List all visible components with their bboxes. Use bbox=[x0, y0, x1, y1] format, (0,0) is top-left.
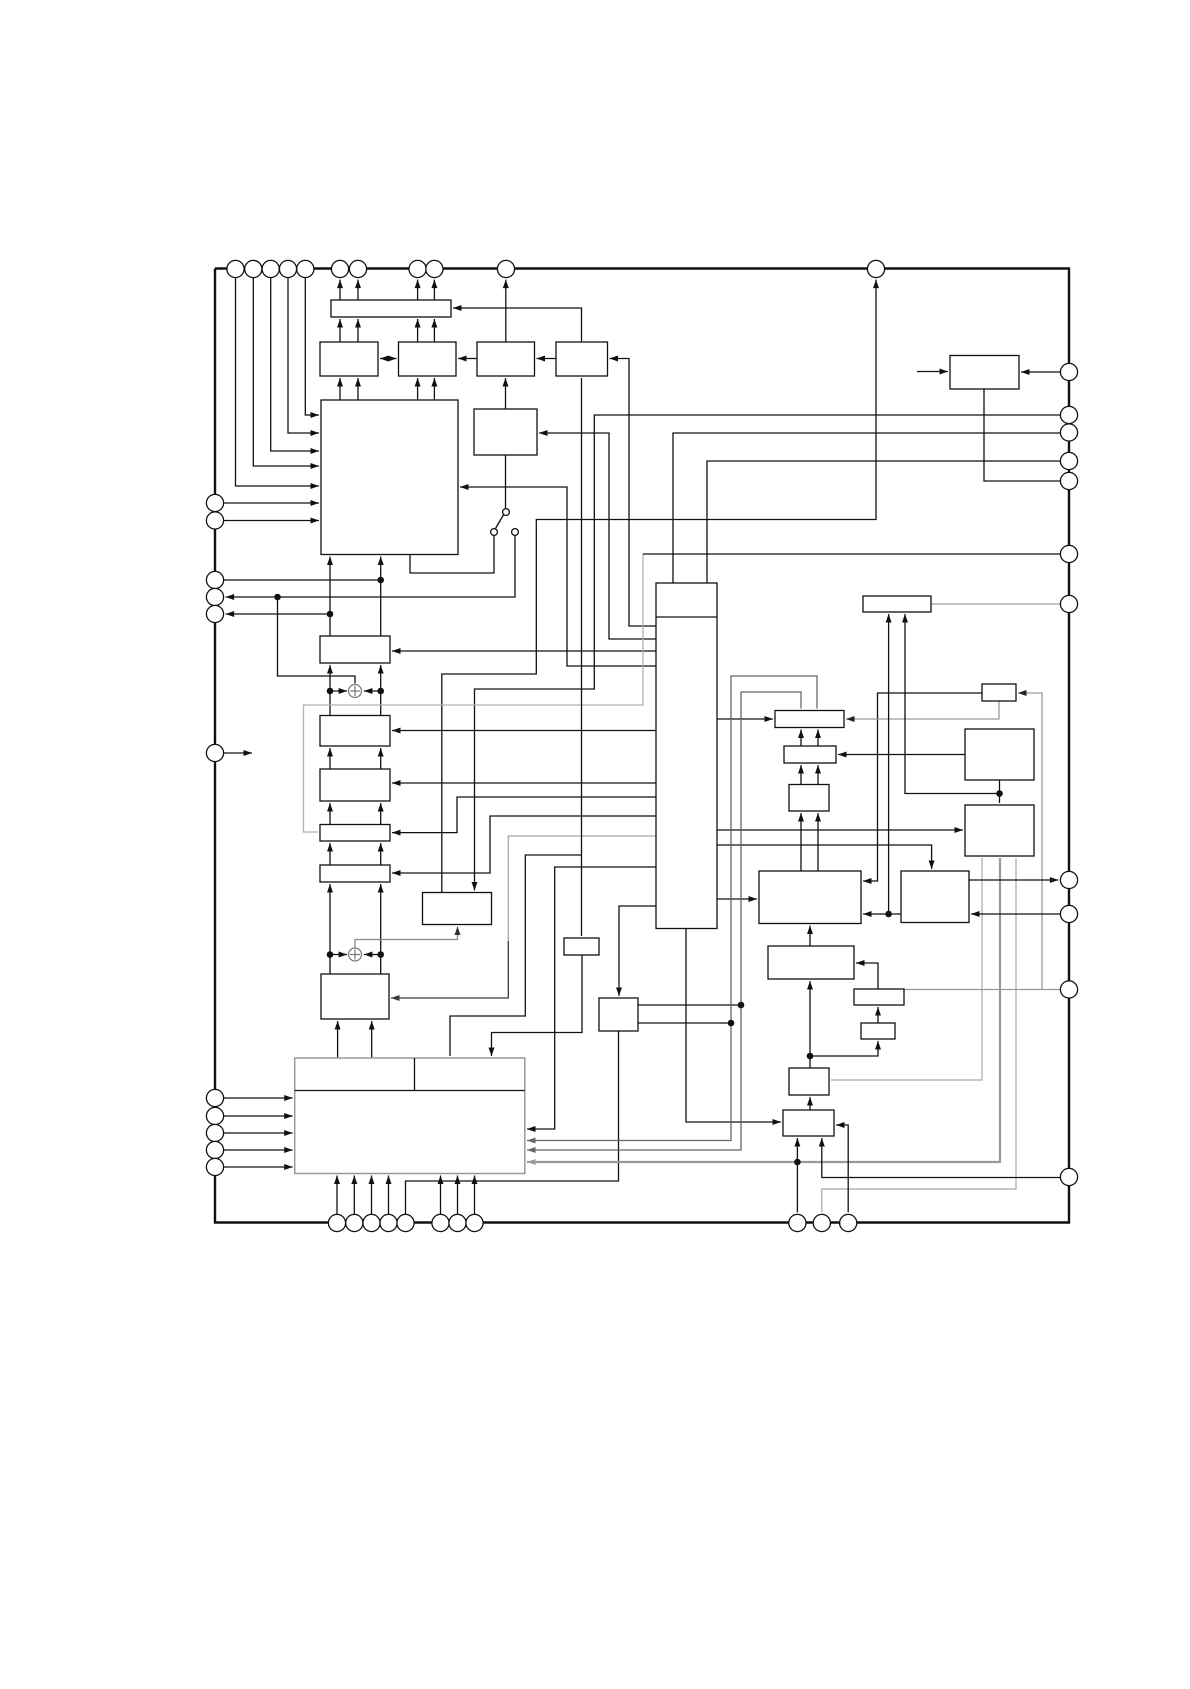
wire U1 to U3 b bbox=[357, 378, 359, 400]
wire pin R11 to H3 bbox=[822, 1138, 1061, 1178]
block U6 bbox=[556, 342, 608, 376]
wire T1 to E7 lower bbox=[391, 941, 508, 998]
wire IF header bottom bbox=[295, 1090, 525, 1092]
wire D1 to IF header bbox=[492, 955, 583, 1056]
block X2 bbox=[982, 684, 1016, 701]
wire IF header divider bbox=[414, 1058, 416, 1091]
wire tap to X1 b bbox=[905, 614, 1000, 794]
pin right 11 bbox=[1060, 1168, 1077, 1185]
wire E4 to E3 a bbox=[329, 803, 331, 825]
wire T1 to U6 bbox=[610, 359, 657, 627]
wire E2 to E1 a bbox=[329, 665, 331, 716]
junction dot A1 right bbox=[377, 688, 384, 695]
wire T1 to U1 right bbox=[460, 487, 656, 666]
pin left 2 bbox=[206, 512, 223, 529]
pin bottom 1 bbox=[328, 1214, 345, 1231]
wire U1 to U3 a bbox=[339, 378, 341, 400]
wire adder A2 in right bbox=[364, 954, 381, 956]
wire gray riser B bbox=[527, 692, 801, 1150]
wire gray riser B arrow bbox=[527, 1147, 536, 1153]
junction dot A1 left bbox=[327, 688, 334, 695]
wire U6 to U2 right bbox=[453, 308, 582, 342]
wire adder A1 in left bbox=[330, 690, 347, 692]
wire T1 divider bbox=[656, 616, 717, 618]
wire X2 to G4 bbox=[863, 693, 982, 881]
wire U3 out2 to U2 bbox=[357, 319, 359, 342]
wire W1 to G4 bbox=[809, 926, 811, 947]
pin bottom 11 bbox=[840, 1214, 857, 1231]
wire E5 to E4 a bbox=[329, 843, 331, 865]
wire U5 to pin bbox=[505, 280, 507, 342]
junction dot gray C tap bbox=[794, 1159, 801, 1166]
block M2 bbox=[599, 998, 638, 1031]
pin bottom 4 bbox=[380, 1214, 397, 1231]
block E3 bbox=[320, 769, 390, 801]
wire switch left to U1 bbox=[410, 535, 494, 573]
block X4 bbox=[965, 805, 1034, 856]
wire gray bus bbox=[304, 554, 644, 832]
wire F1 out to top pin bbox=[442, 280, 876, 893]
wire gray to H2 bbox=[831, 858, 982, 1080]
pin bottom 6 bbox=[432, 1214, 449, 1231]
junction dot A2 left bbox=[327, 951, 334, 958]
block H2 bbox=[789, 1068, 829, 1095]
wire pin1 to U1 in1 bbox=[236, 278, 320, 486]
wire U5 to U4 bbox=[458, 358, 477, 360]
wire E5 to E4 b bbox=[380, 843, 382, 865]
wire U2 out1 to pin bbox=[339, 280, 341, 300]
pin left 3 bbox=[206, 571, 223, 588]
wire T1 to U7 right bbox=[539, 433, 656, 639]
pin right 3 bbox=[1060, 424, 1077, 441]
wire T1 to E4 bbox=[392, 797, 656, 833]
pin left 8 bbox=[206, 1107, 223, 1124]
wire pin L9 to IF bbox=[224, 1132, 293, 1134]
wire U2 out2 to pin bbox=[357, 280, 359, 300]
wire T1 to E1 bbox=[392, 650, 656, 652]
adder A1 bbox=[349, 685, 362, 698]
pin right 5 bbox=[1060, 472, 1077, 489]
wire tap to S3 bbox=[810, 1041, 878, 1056]
wire G4 to G3 a bbox=[800, 813, 802, 871]
wire fb T right bbox=[1042, 989, 1060, 991]
wire pin2 to U1 in2 bbox=[253, 278, 319, 466]
wire T1 to G4 bbox=[717, 898, 757, 900]
pin right 2 bbox=[1060, 406, 1077, 423]
wire pin R1 to F1 top bbox=[475, 415, 1061, 891]
wire S2 to W1 bbox=[856, 963, 878, 989]
wire gray bus C arrow bbox=[527, 1159, 536, 1165]
wire tap to pin L5 bbox=[226, 613, 330, 615]
block S3 bbox=[861, 1023, 895, 1039]
wire pin B6 to IF bbox=[457, 1176, 459, 1215]
wire U7 to switch bbox=[505, 455, 507, 509]
block Z1 bbox=[901, 871, 969, 923]
wire IF to E6 a bbox=[337, 1021, 339, 1058]
block G3 bbox=[789, 785, 829, 812]
junction dot W1 tap bbox=[807, 1053, 814, 1060]
block E1 bbox=[320, 636, 390, 663]
wire pin L10 to IF bbox=[224, 1149, 293, 1151]
junction dot pin L3 bbox=[377, 577, 384, 584]
pin bottom 10 bbox=[813, 1214, 830, 1231]
pin top 9 bbox=[426, 260, 443, 277]
wire G2 to G1 a bbox=[800, 730, 802, 747]
wire pin B7 to IF bbox=[474, 1176, 476, 1215]
wire fb to X2 bbox=[1018, 693, 1042, 990]
block U7 bbox=[474, 409, 537, 455]
pin top 6 bbox=[331, 260, 348, 277]
wire Z1 to pin R8 bbox=[969, 879, 1058, 881]
junction dot feedback bbox=[274, 594, 281, 601]
block E2 bbox=[320, 716, 390, 747]
wire U8 to pin R5 bbox=[984, 389, 1060, 481]
pin left 7 bbox=[206, 1089, 223, 1106]
wire X3 to X4 bbox=[999, 780, 1001, 803]
wire pin L11 to IF bbox=[224, 1166, 293, 1168]
wire gray riser A arrow bbox=[527, 1138, 536, 1144]
wire T1 to E5 bbox=[392, 816, 656, 873]
wire E1 up to U1 b bbox=[380, 557, 382, 637]
block G2 bbox=[784, 746, 836, 763]
wire feedback to adder A1 bbox=[278, 597, 356, 684]
wire IF to E6 b bbox=[371, 1021, 373, 1058]
block G1 bbox=[775, 711, 844, 728]
block U2 register bbox=[331, 300, 451, 317]
wire pin B1 to IF bbox=[336, 1176, 338, 1215]
wire U6 to U5 bbox=[537, 358, 557, 360]
wire S3 to S2 bbox=[877, 1007, 879, 1023]
junction dot Z1 tap bbox=[885, 911, 892, 918]
wire Z1 to G4 bbox=[863, 913, 901, 915]
wire E1 up to U1 a bbox=[329, 557, 331, 637]
block U5 bbox=[477, 342, 535, 376]
wire gray D bbox=[822, 858, 1016, 1212]
wire stub to U8 bbox=[917, 371, 948, 373]
wire U4 out2 to U2 bbox=[433, 319, 435, 342]
block U8 top right bbox=[950, 356, 1019, 390]
junction dot pin L5 bbox=[327, 611, 334, 618]
wire outer border bbox=[215, 269, 1069, 1223]
wire switch right to pin L4 bbox=[226, 535, 515, 597]
wire U1 to U4 b bbox=[433, 378, 435, 400]
pin bottom 5 bbox=[397, 1214, 414, 1231]
pin right 8 bbox=[1060, 871, 1077, 888]
block X1 bbox=[863, 596, 931, 612]
wire M2 out b bbox=[638, 1022, 731, 1024]
wire pin R0 to U8 bbox=[1021, 371, 1060, 373]
wire pin B4 to IF bbox=[388, 1176, 390, 1215]
adder A2 bbox=[349, 948, 362, 961]
wire pin B5 to IF bbox=[440, 1176, 442, 1215]
wire H3 to H2 bbox=[809, 1097, 811, 1110]
junction dot M2 out a bbox=[738, 1002, 745, 1009]
pin left 11 bbox=[206, 1158, 223, 1175]
wire fb T left bbox=[904, 989, 1042, 991]
pin top 5 bbox=[297, 260, 314, 277]
wire pin B9 to H3 bbox=[796, 1138, 798, 1212]
block H3 bbox=[783, 1110, 834, 1136]
wire pin5 to U1 in5 bbox=[305, 278, 319, 415]
pin left 5 bbox=[206, 605, 223, 622]
wire E3 to E2 b bbox=[380, 748, 382, 769]
block W1 bbox=[768, 946, 854, 979]
block U1 main decoder bbox=[321, 400, 458, 555]
block F1 bbox=[423, 893, 492, 925]
wire pin L8 to IF bbox=[224, 1115, 293, 1117]
wire pin4 to U1 in4 bbox=[288, 278, 319, 433]
block D1 small bbox=[564, 938, 599, 955]
wire G3 to G2 b bbox=[817, 765, 819, 785]
pin left 6 bbox=[206, 744, 223, 761]
wire tap to X1 a bbox=[888, 614, 890, 912]
junction dot X3 tap bbox=[996, 790, 1003, 797]
block E4 bbox=[320, 825, 390, 842]
wire T1 top to pin R2 bbox=[673, 433, 1060, 583]
wire U3 out1 to U2 bbox=[339, 319, 341, 342]
wire T1 to E3 bbox=[392, 782, 656, 784]
pin top 11 bbox=[867, 260, 884, 277]
block U4 bbox=[399, 342, 457, 376]
wire adder A2 in left bbox=[330, 954, 347, 956]
wire E3 to E2 a bbox=[329, 748, 331, 769]
wire branch to IF header bbox=[450, 855, 582, 1056]
wire U6 to D1 bbox=[581, 378, 583, 936]
wire A2 to F1 gray bbox=[355, 927, 458, 949]
wire gray riser A bbox=[527, 676, 817, 1141]
pin right 6 bbox=[1060, 545, 1077, 562]
pin top 1 bbox=[227, 260, 244, 277]
wire T1 to M2 bbox=[619, 906, 656, 996]
block E5 bbox=[320, 865, 390, 882]
wire pin R9 to Z1 bbox=[971, 913, 1060, 915]
wire T1 to G1 bbox=[717, 718, 773, 720]
wire pin3 to U1 in3 bbox=[271, 278, 319, 451]
wire gray bus C bbox=[527, 858, 1000, 1162]
pin top 2 bbox=[245, 260, 262, 277]
wire T1 top to pin R4 bbox=[707, 461, 1060, 583]
wire T1 to X4 bbox=[717, 829, 963, 831]
pin right 10 bbox=[1060, 981, 1077, 998]
wire pin L3 line bbox=[224, 579, 381, 581]
pin top 4 bbox=[279, 260, 296, 277]
wire U2 out3 to pin bbox=[417, 280, 419, 300]
pin top 7 bbox=[349, 260, 366, 277]
pin left 10 bbox=[206, 1141, 223, 1158]
pin top 3 bbox=[262, 260, 279, 277]
wire G3 to G2 a bbox=[800, 765, 802, 785]
wire U3-U4 bus left bbox=[380, 358, 392, 360]
junction dot M2 out b bbox=[728, 1020, 735, 1027]
wire pin B11 to H3 bbox=[836, 1125, 848, 1212]
wire X3 to G2 bbox=[838, 754, 965, 756]
wire H2 to W1 bbox=[809, 981, 811, 1068]
pin left 4 bbox=[206, 588, 223, 605]
wire pin L1 to U1 in6 bbox=[215, 502, 319, 504]
wire E2 to E1 b bbox=[380, 665, 382, 716]
block T1 tall memory bbox=[656, 583, 717, 929]
wire U7 to U5 bbox=[505, 378, 507, 409]
wire E4 to E3 b bbox=[380, 803, 382, 825]
pin bottom 2 bbox=[346, 1214, 363, 1231]
wire pin B3 to IF bbox=[371, 1176, 373, 1215]
pin left 1 bbox=[206, 494, 223, 511]
wire U3-U4 bus right bbox=[385, 358, 397, 360]
wire E6 to E5 a bbox=[329, 884, 331, 974]
pin left 9 bbox=[206, 1124, 223, 1141]
wire U4 out1 to U2 bbox=[417, 319, 419, 342]
wire T1 to IF right bbox=[527, 867, 656, 1129]
pin right 9 bbox=[1060, 905, 1077, 922]
wire T1 to Z1 bbox=[717, 845, 932, 869]
wire pin L7 to IF bbox=[224, 1097, 293, 1099]
pin right 7 bbox=[1060, 595, 1077, 612]
pin top 8 bbox=[409, 260, 426, 277]
switch SW1 bbox=[491, 509, 519, 536]
pin bottom 9 bbox=[789, 1214, 806, 1231]
wire adder A1 in right bbox=[364, 690, 381, 692]
wire M2 out a bbox=[638, 1004, 741, 1006]
block IF amp body bbox=[295, 1058, 525, 1174]
pin bottom 8 bbox=[466, 1214, 483, 1231]
wire T1 to E7 gray upper bbox=[508, 836, 656, 941]
wire G4 to G3 b bbox=[817, 813, 819, 871]
pin right 1 bbox=[1060, 363, 1077, 380]
pin right 4 bbox=[1060, 452, 1077, 469]
wire pin B5 to M2 bbox=[406, 1031, 619, 1214]
wire T1 to H3 bbox=[686, 929, 781, 1123]
block U3 bbox=[320, 342, 378, 376]
wire pin L6 stub bbox=[224, 752, 252, 754]
wire X1 to pin R7 bbox=[931, 603, 1060, 605]
block G4 bbox=[759, 871, 861, 924]
junction dot A2 right bbox=[377, 951, 384, 958]
wire X2 to G1 bbox=[846, 701, 999, 719]
wire pin L2 to U1 in7 bbox=[215, 520, 319, 522]
wire U1 to U4 a bbox=[417, 378, 419, 400]
block E6 bbox=[321, 974, 389, 1019]
wire E6 to E5 b bbox=[380, 884, 382, 974]
wire G2 to G1 b bbox=[817, 730, 819, 747]
pin bottom 3 bbox=[363, 1214, 380, 1231]
block X3 bbox=[965, 729, 1034, 780]
pin bottom 7 bbox=[449, 1214, 466, 1231]
pin top 10 bbox=[497, 260, 514, 277]
wire pin B2 to IF bbox=[353, 1176, 355, 1215]
wire T1 to E2 bbox=[392, 730, 656, 732]
block S2 bbox=[854, 989, 904, 1005]
wire U2 out4 to pin bbox=[433, 280, 435, 300]
wire to pin R6 bbox=[643, 553, 1060, 555]
